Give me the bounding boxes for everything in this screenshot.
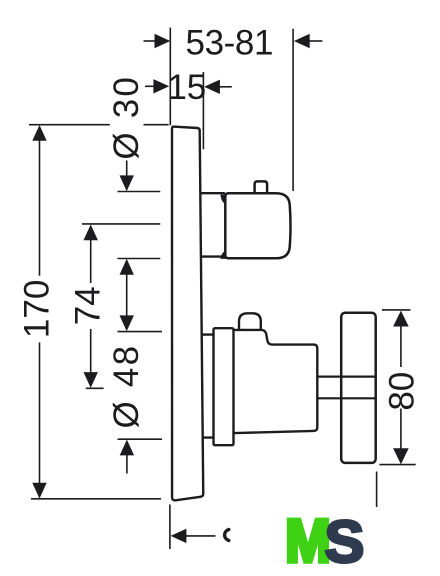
arrowhead bottom-left (left): [171, 529, 187, 543]
ext line 170 top seg2: [144, 124, 169, 126]
svg-text:53-81: 53-81: [186, 23, 274, 62]
ext line dia48 top: [118, 331, 163, 333]
ext line 74 top: [82, 223, 160, 225]
dim line dia30-dia48 shared: [126, 273, 128, 317]
stem bottom line: [317, 397, 374, 399]
dim line 170 upper: [39, 139, 41, 276]
tab on knob top: [255, 181, 268, 192]
dim line 74 lower: [90, 329, 92, 373]
ext line plate-left bottom vertical: [169, 505, 171, 550]
arrowhead 53-81 right: [294, 34, 310, 48]
cross handle bar: [341, 313, 376, 463]
dim tail bottom-left: [185, 535, 216, 537]
ext line 170 top seg1: [29, 124, 110, 126]
ext line handle-bottom vertical: [376, 472, 378, 508]
stem top line: [317, 376, 374, 378]
ext line 53-81 left / plate-left extended: [169, 28, 171, 126]
ext line 80 bottom: [379, 464, 415, 466]
ext line 170 bottom: [31, 498, 161, 500]
knob clip bottom: [220, 251, 225, 259]
dim line 74 upper: [90, 239, 92, 283]
arrowhead 80 top: [393, 311, 409, 327]
knob clip top: [220, 195, 225, 205]
dim tail 53-81 left: [144, 40, 157, 42]
dim tail 53-81 right: [309, 40, 323, 42]
dim line 80 lower: [400, 409, 402, 451]
dome cap on body: [239, 313, 261, 330]
arrowhead 80 bottom: [393, 448, 409, 464]
svg-text:S: S: [325, 508, 365, 575]
dim line dia30 above: [126, 161, 128, 178]
ext line 53-81 right: [292, 29, 294, 191]
ext line 74 bottom: [86, 387, 104, 389]
svg-text:Ø 48: Ø 48: [107, 344, 146, 429]
svg-text:Ø 30: Ø 30: [107, 75, 146, 160]
arrowhead dia48 top (down): [120, 315, 134, 331]
arrowhead 15 right: [204, 80, 220, 94]
partial glyph at bottom dim: [225, 530, 229, 541]
lower connector bottom edge: [203, 436, 214, 438]
dim line 80 upper: [400, 325, 402, 367]
arrowhead dia48 bottom (up): [120, 440, 134, 456]
arrowhead dia30 top (down): [120, 175, 134, 191]
sleeve top edge (upper valve): [201, 192, 224, 194]
arrowhead 15 left: [153, 79, 169, 93]
svg-text:74: 74: [68, 286, 107, 325]
dim tail 15 left: [145, 85, 155, 87]
arrowhead dia30 bottom (up): [120, 259, 134, 275]
ext line 15 right: [202, 72, 204, 149]
dim tail 15 right: [219, 86, 232, 88]
thermostat body: [234, 330, 318, 433]
lower connector (plate to flange) top edge: [203, 333, 214, 335]
ext line dia30 bottom: [118, 258, 161, 260]
thermostat flange: [214, 328, 234, 445]
ext line 80 top: [382, 309, 411, 311]
svg-text:170: 170: [18, 280, 57, 338]
svg-text:80: 80: [383, 372, 422, 411]
arrowhead 74 bottom: [84, 372, 98, 388]
wall plate (escutcheon): [172, 127, 203, 501]
ext line dia48 bottom: [118, 438, 163, 440]
sleeve bottom edge (upper valve): [201, 255, 224, 257]
upper knob (volume handle): [225, 193, 290, 258]
dim tail dia48 bottom: [126, 454, 128, 474]
dim line 170 lower: [39, 343, 41, 485]
arrowhead 170 top: [32, 125, 46, 141]
arrowhead 74 top: [84, 225, 98, 241]
arrowhead 53-81 left: [155, 34, 171, 48]
svg-text:15: 15: [167, 68, 206, 107]
ext line dia30 top: [118, 191, 161, 193]
arrowhead 170 bottom: [32, 483, 46, 499]
